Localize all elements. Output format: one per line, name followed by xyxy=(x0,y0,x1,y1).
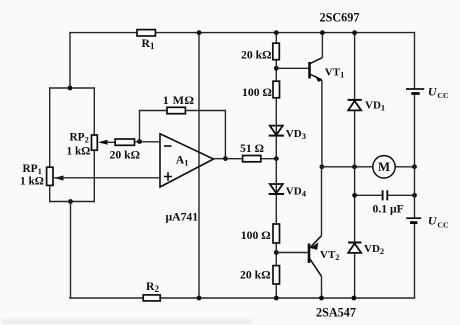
node VT2 base junction xyxy=(274,250,279,255)
resistor 1M feedback xyxy=(163,93,195,114)
wire op-amp output xyxy=(214,158,277,160)
scan smudge bottom xyxy=(2,320,252,323)
resistor 20k input xyxy=(110,139,140,161)
resistor R2 xyxy=(143,280,160,301)
capacitor 0.1uF xyxy=(373,190,404,215)
node cap row left xyxy=(352,193,357,198)
svg-text:1 MΩ: 1 MΩ xyxy=(163,93,195,107)
wire bottom rail xyxy=(70,297,415,299)
svg-text:CC: CC xyxy=(437,91,449,100)
wire VT2 emitter column xyxy=(321,167,323,236)
node emitter motor junction xyxy=(320,164,325,169)
node bottom rail x199 xyxy=(197,296,202,301)
node motor row left xyxy=(352,164,357,169)
svg-text:U: U xyxy=(428,214,438,228)
wire VT2 collector to rail xyxy=(321,276,323,298)
diode VD4 xyxy=(269,184,307,198)
resistor 100 lower xyxy=(241,224,280,243)
svg-text:20 kΩ: 20 kΩ xyxy=(241,49,271,62)
battery Ucc lower xyxy=(406,214,449,230)
node output to diode chain xyxy=(274,156,279,161)
svg-text:100 Ω: 100 Ω xyxy=(242,86,272,99)
node VT1 base junction xyxy=(274,66,279,71)
node inverting input xyxy=(137,139,142,144)
node motor row right xyxy=(412,164,417,169)
resistor R1 xyxy=(137,30,155,51)
svg-text:100 Ω: 100 Ω xyxy=(241,229,271,242)
node cap row right xyxy=(412,193,417,198)
node feedback output tap xyxy=(223,156,228,161)
wire VT1 collector to rail xyxy=(321,33,323,58)
transistor VT2 xyxy=(309,236,340,277)
wire VD1 VD2 column xyxy=(354,33,356,298)
node VT2 collector rail xyxy=(319,296,324,301)
svg-text:M: M xyxy=(378,160,390,174)
node top rail x199 xyxy=(197,30,202,35)
node VT1 collector rail xyxy=(320,30,325,35)
wire box bottom to ground rail xyxy=(70,202,72,299)
wire bias diode chain xyxy=(275,33,277,298)
diode VD3 xyxy=(269,126,306,142)
resistor 100 upper xyxy=(242,81,280,99)
wire VT1 emitter column xyxy=(321,80,323,167)
wire left feed vertical xyxy=(69,33,71,88)
node VD column bottom xyxy=(352,296,357,301)
motor M xyxy=(373,156,395,178)
svg-text:CC: CC xyxy=(437,220,449,229)
node chain top xyxy=(274,30,279,35)
transistor VT1 xyxy=(310,58,345,82)
diode VD2 xyxy=(348,243,384,257)
resistor 51 ohm xyxy=(240,142,264,162)
wire noninverting input xyxy=(54,177,160,179)
node chain bottom xyxy=(274,296,279,301)
node box top junction xyxy=(68,86,73,91)
resistor 20k lower xyxy=(240,266,280,284)
svg-text:20 kΩ: 20 kΩ xyxy=(240,268,270,281)
wire VT1 base xyxy=(276,67,309,69)
wire VT2 base xyxy=(276,252,309,254)
wire potentiometer box xyxy=(50,88,95,202)
battery Ucc upper xyxy=(406,85,449,101)
wire RP2 wiper to inverting input xyxy=(107,141,160,144)
op-amp A1 xyxy=(160,134,214,224)
svg-text:1 kΩ: 1 kΩ xyxy=(67,145,91,157)
svg-text:20 kΩ: 20 kΩ xyxy=(110,148,140,161)
svg-text:U: U xyxy=(428,85,438,99)
node box bottom junction xyxy=(68,199,73,204)
diode VD1 xyxy=(348,100,386,113)
potentiometer RP1 xyxy=(20,163,64,188)
node VD column top xyxy=(352,30,357,35)
svg-text:1 kΩ: 1 kΩ xyxy=(20,175,44,187)
svg-text:2SC697: 2SC697 xyxy=(320,10,360,24)
wire top rail xyxy=(70,32,415,34)
potentiometer RP2 xyxy=(67,132,108,158)
svg-text:51 Ω: 51 Ω xyxy=(240,142,264,155)
svg-text:μA741: μA741 xyxy=(166,210,199,223)
wire capacitor row xyxy=(355,194,415,196)
svg-text:0.1 μF: 0.1 μF xyxy=(373,202,404,215)
wire motor row xyxy=(322,166,415,168)
wire right supply column xyxy=(414,33,416,298)
resistor 20k upper xyxy=(241,43,279,61)
wire feedback loop xyxy=(140,111,226,159)
wire R1-R2 vertical xyxy=(198,33,200,298)
svg-text:2SA547: 2SA547 xyxy=(316,305,356,319)
